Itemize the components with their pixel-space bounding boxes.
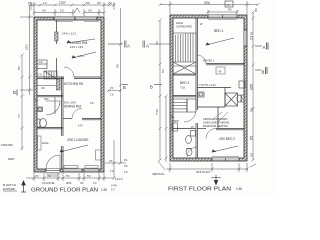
bathroom basin left	[172, 123, 178, 131]
bed2 door swing	[206, 129, 216, 139]
ground floor hall partition vertical	[62, 77, 64, 169]
svg-text:5'0: 5'0	[87, 174, 91, 178]
ground floor wc toilet	[37, 119, 46, 128]
svg-text:10'6: 10'6	[250, 84, 254, 90]
svg-text:7'10: 7'10	[180, 86, 185, 90]
first floor bed2 wall	[198, 129, 245, 130]
section line A right plan	[143, 41, 170, 48]
svg-text:DINING RM: DINING RM	[64, 105, 81, 109]
partition door swing	[64, 67, 74, 77]
svg-text:1'0: 1'0	[38, 73, 42, 77]
kitchen worktop line	[37, 85, 56, 87]
svg-text:1'0: 1'0	[93, 181, 97, 185]
first floor bed3 top wall	[173, 74, 196, 76]
svg-text:3'6: 3'6	[124, 164, 128, 168]
svg-text:A: A	[127, 44, 130, 49]
first floor basin	[198, 92, 204, 97]
svg-text:14'6 x 13'4: 14'6 x 13'4	[70, 45, 84, 49]
first floor left dimension line 2	[165, 95, 168, 163]
svg-text:RADIATOR HEATING: RADIATOR HEATING	[203, 124, 228, 128]
bed1 dimension arrow	[206, 38, 234, 45]
svg-text:9'6 x 19'6: 9'6 x 19'6	[64, 101, 76, 105]
svg-text:7'10 5'0 x 2'10: 7'10 5'0 x 2'10	[199, 83, 216, 87]
svg-text:LINEN SHELF ABOVE: LINEN SHELF ABOVE	[203, 120, 230, 124]
lounge radiator 2	[85, 166, 98, 169]
svg-text:GROUND FLOOR PLAN: GROUND FLOOR PLAN	[31, 188, 98, 194]
svg-text:9'6: 9'6	[254, 8, 258, 12]
svg-text:3'0: 3'0	[88, 9, 92, 13]
bed2 dimension arrow	[212, 146, 238, 152]
svg-text:5'0: 5'0	[250, 108, 254, 112]
ground floor left dimension line	[20, 6, 33, 96]
svg-text:B: B	[123, 85, 126, 90]
ground floor front door swing	[46, 155, 60, 169]
caption small arrow	[211, 175, 221, 185]
first floor staircase	[173, 33, 196, 74]
svg-text:KITCHEN 9'6: KITCHEN 9'6	[64, 82, 83, 86]
svg-text:4'0: 4'0	[39, 60, 43, 64]
svg-text:LIVING RM: LIVING RM	[70, 41, 88, 45]
first floor outer wall	[170, 15, 247, 161]
ground floor chimney breast	[37, 60, 47, 69]
right lower extension line	[113, 140, 116, 180]
linen cupboard shelves	[173, 99, 196, 112]
first floor top dimension line	[159, 1, 260, 14]
ground floor bottom wall front door opening	[46, 169, 60, 172]
hall radiator	[38, 136, 42, 150]
svg-text:5'0: 5'0	[161, 69, 165, 73]
svg-text:OFF PLAN: OFF PLAN	[196, 170, 210, 174]
bathroom door swing	[184, 110, 196, 122]
stair wall stub	[57, 79, 61, 90]
ground floor bottom dimension line	[26, 173, 114, 181]
ground floor dining/lounge partition	[63, 119, 101, 120]
lounge corner unit	[96, 150, 102, 160]
svg-text:W: W	[219, 70, 222, 74]
right side small dim	[107, 89, 122, 92]
lounge radiator 1	[64, 166, 78, 169]
first floor bathroom top wall	[173, 96, 196, 97]
living upper arrow	[67, 39, 95, 43]
north arrow	[21, 181, 26, 192]
svg-text:1'6: 1'6	[60, 9, 64, 13]
svg-text:5'6: 5'6	[42, 9, 46, 13]
svg-text:TWIN: TWIN	[172, 119, 179, 123]
svg-text:B: B	[150, 85, 153, 90]
svg-text:1'0: 1'0	[43, 1, 47, 5]
first floor bathroom bottom wall	[173, 128, 196, 130]
bed1 window sill line	[208, 19, 237, 21]
svg-text:8'6: 8'6	[17, 66, 21, 70]
svg-text:1'0: 1'0	[110, 169, 114, 173]
svg-text:13'0": 13'0"	[59, 1, 66, 5]
ground floor partition hall/living	[37, 77, 101, 78]
ground floor bottom wall window 1	[63, 169, 82, 172]
ground floor wc door swing	[46, 101, 60, 115]
first floor bottom dimension line	[166, 163, 249, 172]
svg-text:HALL: HALL	[42, 141, 49, 145]
svg-text:S.BOARD: S.BOARD	[1, 143, 13, 147]
svg-text:14'4 x 11'1: 14'4 x 11'1	[62, 32, 76, 36]
right B marker	[122, 85, 128, 91]
svg-text:4'6: 4'6	[90, 101, 94, 105]
lounge dimension arrow	[60, 145, 88, 152]
first floor shower	[225, 93, 238, 106]
A marker far right	[255, 43, 268, 51]
svg-text:7'10: 7'10	[155, 109, 159, 115]
svg-text:1:50: 1:50	[101, 188, 107, 192]
svg-text:14'0: 14'0	[78, 54, 84, 58]
section line A left plan	[108, 41, 126, 48]
svg-text:1'0: 1'0	[124, 170, 128, 174]
svg-text:5'0: 5'0	[171, 115, 175, 119]
svg-text:5'0: 5'0	[66, 174, 70, 178]
svg-text:A: A	[146, 44, 149, 49]
svg-text:6'2: 6'2	[155, 41, 159, 45]
first floor bathroom2 wall	[198, 87, 232, 89]
svg-text:3'6: 3'6	[28, 1, 32, 5]
bed2 window sill line	[212, 156, 239, 158]
svg-text:W: W	[191, 125, 194, 129]
svg-text:25'6: 25'6	[204, 1, 210, 5]
svg-text:4'50 LOUNGE: 4'50 LOUNGE	[67, 138, 89, 142]
ground floor secondary top dimension	[33, 8, 106, 16]
ground floor outer wall	[34, 17, 104, 172]
svg-text:ROOM 1: ROOM 1	[203, 59, 214, 63]
svg-text:9'1: 9'1	[124, 158, 128, 162]
svg-text:2'6: 2'6	[109, 159, 113, 163]
ground floor top wall window band	[54, 17, 97, 21]
svg-text:4'6: 4'6	[47, 174, 51, 178]
svg-text:3'6: 3'6	[97, 1, 101, 5]
svg-text:CL: CL	[227, 3, 231, 7]
outer left dimension line	[21, 54, 24, 151]
B marker far right	[255, 67, 267, 75]
airing cupboard leader	[212, 112, 228, 122]
svg-text:1'0: 1'0	[111, 188, 115, 192]
ground floor staircase	[44, 71, 57, 79]
wc door swing	[187, 147, 197, 157]
landing cupboard	[216, 67, 225, 74]
svg-text:2'1 m: 2'1 m	[250, 32, 254, 40]
first floor right dimension line	[252, 12, 255, 162]
ground floor bottom wall window 2	[84, 169, 99, 172]
svg-text:EXPAND: EXPAND	[3, 187, 16, 191]
bottom left leader note	[158, 161, 165, 170]
svg-text:3'6: 3'6	[80, 181, 84, 185]
svg-text:BED 1: BED 1	[214, 29, 223, 33]
entrance step	[46, 174, 60, 176]
svg-text:V 4'6: V 4'6	[111, 184, 117, 188]
living front wall stub	[56, 20, 58, 77]
svg-text:AIRING CUPBOARD: AIRING CUPBOARD	[203, 117, 227, 121]
svg-text:3'0: 3'0	[110, 86, 114, 90]
bed1 door swing	[198, 55, 207, 64]
svg-text:PART: PART	[8, 157, 15, 161]
svg-text:4'5: 4'5	[116, 64, 120, 68]
svg-text:7'2: 7'2	[17, 114, 21, 118]
ground floor wc top wall	[37, 96, 63, 97]
svg-text:4'6 1'0: 4'6 1'0	[115, 177, 123, 181]
first floor toilet right	[237, 95, 244, 102]
first floor window dim	[207, 10, 239, 14]
svg-text:14'1: 14'1	[78, 124, 83, 128]
first floor bathroom toilet	[186, 131, 196, 144]
ground floor right dimension line	[105, 8, 126, 165]
svg-text:5'6: 5'6	[86, 1, 90, 5]
svg-text:4'6 LINTEL: 4'6 LINTEL	[42, 181, 55, 185]
wc inner partition	[54, 97, 56, 114]
svg-text:4'0: 4'0	[41, 86, 45, 90]
first floor bottom wall window	[212, 158, 239, 161]
first floor bathroom2 bottom wall	[198, 88, 226, 129]
roof vent block	[225, 1, 233, 7]
ground floor wc basin	[38, 107, 43, 112]
first floor spine wall vertical	[196, 18, 198, 158]
living room dimension arrow	[72, 52, 96, 58]
svg-text:9'6: 9'6	[228, 8, 232, 12]
svg-text:VERTICAL: VERTICAL	[152, 172, 165, 176]
svg-text:CUPBOARD: CUPBOARD	[176, 24, 192, 28]
svg-text:FIRST FLOOR PLAN: FIRST FLOOR PLAN	[168, 187, 231, 193]
front wall stub pier	[55, 32, 58, 41]
svg-text:WC: WC	[44, 97, 49, 101]
top right cupboard	[239, 81, 245, 88]
first floor top wall window	[208, 15, 237, 18]
svg-text:3'6: 3'6	[250, 153, 254, 157]
svg-text:B: B	[262, 70, 265, 75]
living window sill lines	[55, 21, 99, 23]
svg-text:4'50 BED 2: 4'50 BED 2	[219, 137, 235, 141]
svg-text:1'6: 1'6	[110, 93, 114, 97]
svg-text:W06: W06	[66, 181, 72, 185]
first floor bed1 wall	[206, 64, 244, 65]
svg-text:22'6: 22'6	[25, 44, 29, 50]
svg-text:3'0: 3'0	[35, 174, 39, 178]
svg-text:A: A	[263, 45, 266, 50]
svg-text:1:50: 1:50	[236, 187, 242, 191]
svg-text:8'2: 8'2	[250, 136, 254, 140]
B marker right plan left	[150, 85, 162, 90]
first floor left dimension line	[159, 19, 162, 162]
svg-text:BED 3: BED 3	[180, 81, 189, 85]
first floor right wall window	[244, 30, 247, 46]
svg-text:4'0: 4'0	[35, 99, 39, 103]
svg-text:2'6: 2'6	[108, 1, 112, 5]
first floor wc basin	[186, 148, 192, 155]
svg-text:B: B	[13, 90, 16, 95]
ground floor top dimension line	[28, 2, 116, 16]
ground floor dining door swing	[72, 109, 82, 119]
ground floor wc bottom wall	[37, 128, 63, 129]
